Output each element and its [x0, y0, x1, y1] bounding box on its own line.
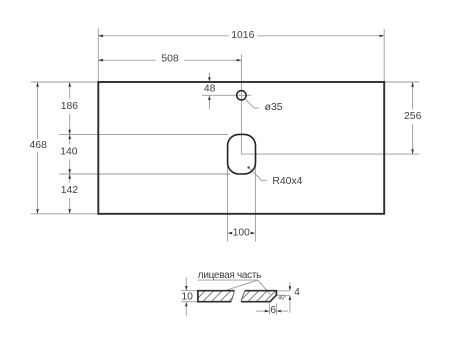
- dimension 6: [256, 303, 288, 316]
- svg-text:186: 186: [61, 101, 79, 112]
- dimension 100: [228, 228, 256, 239]
- plate outline (top view): [98, 82, 384, 214]
- dimension 4: [277, 283, 300, 314]
- svg-text:R40x4: R40x4: [272, 176, 302, 187]
- dimension 468: [30, 82, 48, 214]
- svg-text:лицевая часть: лицевая часть: [198, 270, 261, 281]
- dimension 48: [204, 73, 216, 110]
- hole ø35: [237, 91, 246, 100]
- dimension 10: [181, 277, 198, 316]
- svg-text:45°: 45°: [278, 295, 286, 301]
- extension line capsule top (y=134.4): [59, 133, 228, 135]
- svg-text:1016: 1016: [231, 30, 254, 41]
- wire: hole horizontal center line: [202, 94, 251, 96]
- svg-text:142: 142: [61, 185, 79, 196]
- extension line top-right (x=384.2): [383, 29, 385, 82]
- extension line 100-left (x=227.5): [227, 155, 229, 242]
- leader R40x4: [248, 166, 303, 187]
- dimension 1016: [98, 30, 384, 41]
- section bar right segment outline: [241, 291, 277, 302]
- svg-text:140: 140: [60, 146, 78, 157]
- extension line top-left (x=98.3): [97, 29, 99, 83]
- capsule cutout R40x4: [228, 134, 256, 174]
- extension line left-bottom (y=213.8): [31, 213, 98, 215]
- dimension 142: [61, 174, 79, 214]
- extension line 100-right (x=255.4): [254, 155, 256, 242]
- extension line capsule center (y=154.1): [241, 153, 419, 155]
- svg-text:100: 100: [233, 228, 251, 239]
- svg-text:ø35: ø35: [265, 102, 283, 113]
- break edge right: [241, 291, 245, 302]
- break edge left: [231, 291, 234, 302]
- leader ø35: [245, 99, 283, 113]
- svg-text:4: 4: [294, 287, 300, 298]
- svg-text:10: 10: [181, 291, 193, 302]
- dimension 508: [98, 54, 241, 65]
- hatch right segment: [238, 289, 286, 303]
- hatch left segment: [193, 289, 250, 303]
- extension line left-top (y=82): [31, 81, 98, 83]
- dimension 140: [60, 134, 78, 174]
- svg-text:508: 508: [161, 54, 179, 65]
- svg-text:6: 6: [270, 305, 276, 316]
- svg-text:468: 468: [30, 140, 48, 151]
- svg-text:256: 256: [404, 111, 422, 122]
- section bar left segment outline: [198, 291, 235, 302]
- extension line capsule bottom (y=174): [59, 173, 230, 175]
- extension line right-top (y=82): [384, 81, 419, 83]
- wire: hole vertical center line: [240, 55, 242, 155]
- dimension 256: [404, 82, 422, 154]
- label "лицевая часть" with leaders: [198, 270, 271, 295]
- svg-text:48: 48: [204, 84, 216, 95]
- dimension 186: [61, 82, 79, 134]
